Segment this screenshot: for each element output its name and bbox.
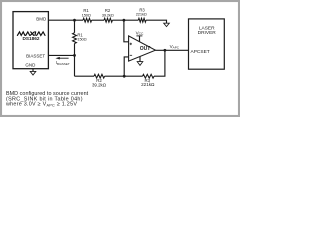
current arrow IBIASSET: [55, 57, 68, 60]
svg-text:BIASSET: BIASSET: [26, 54, 45, 59]
outer gray frame: [1, 1, 239, 116]
wire bottom-right up to output node: [154, 50, 165, 76]
wire down to bottom rail: [74, 44, 76, 77]
resistor R2 39.2k (horizontal top): [104, 18, 112, 22]
svg-text:DS1862: DS1862: [23, 36, 40, 41]
wire: [92, 19, 104, 21]
svg-text:IBIASSET: IBIASSET: [56, 60, 70, 66]
wire op-amp output to laser driver: [155, 49, 188, 51]
svg-text:39.2kΩ: 39.2kΩ: [102, 12, 114, 17]
IC U1 DS1862 box: [13, 12, 48, 69]
resistor R1 150ohm (vertical): [73, 33, 77, 44]
wire to op-amp non-inverting input: [124, 20, 129, 42]
svg-text:OUT: OUT: [140, 46, 151, 52]
wire BIASSET pin: [48, 54, 74, 56]
resistor R3 221k (bottom): [143, 74, 155, 78]
resistor R2 39.2k (bottom): [94, 74, 105, 78]
svg-text:39.2kΩ: 39.2kΩ: [92, 82, 107, 87]
wire BMD net (top): [48, 19, 83, 21]
node B junction dot: [123, 19, 126, 22]
ground (op-amp) open arrow: [137, 57, 143, 66]
wire node A down: [74, 20, 76, 33]
op-amp U2: [129, 36, 156, 61]
laser driver box: [189, 19, 225, 69]
supply VCC: [136, 31, 144, 42]
ground (DS1862 GND) open arrow: [30, 69, 36, 75]
node C junction dot (BIASSET tee): [73, 54, 76, 57]
svg-text:150Ω: 150Ω: [82, 12, 91, 17]
svg-text:GND: GND: [25, 63, 36, 68]
node VAPC junction dot: [164, 49, 167, 52]
svg-text:VCC: VCC: [136, 31, 144, 37]
node D junction dot (inverting tee): [123, 75, 126, 78]
svg-text:APCSET: APCSET: [191, 49, 210, 55]
resistor R3 221k (horizontal top): [138, 18, 146, 22]
wire to op-amp inverting input: [124, 57, 128, 76]
MAXIM logo: [17, 32, 45, 36]
open arrow down (net continues): [164, 23, 170, 26]
svg-text:150Ω: 150Ω: [77, 37, 86, 42]
svg-text:221kΩ: 221kΩ: [141, 82, 155, 87]
wire to top-right arrow: [146, 20, 167, 23]
wire: [105, 75, 143, 77]
wire bottom rail: [75, 75, 95, 77]
node A junction dot: [73, 19, 76, 22]
svg-text:DRIVER: DRIVER: [198, 30, 217, 36]
svg-text:where 3.0V ≥ VAPC ≥ 1.25V: where 3.0V ≥ VAPC ≥ 1.25V: [5, 102, 77, 108]
svg-text:221kΩ: 221kΩ: [136, 12, 147, 17]
svg-text:VAPC: VAPC: [170, 44, 180, 50]
wire: [112, 19, 138, 21]
resistor R1 150ohm (horizontal top): [83, 18, 92, 22]
svg-text:BMD: BMD: [36, 16, 47, 21]
